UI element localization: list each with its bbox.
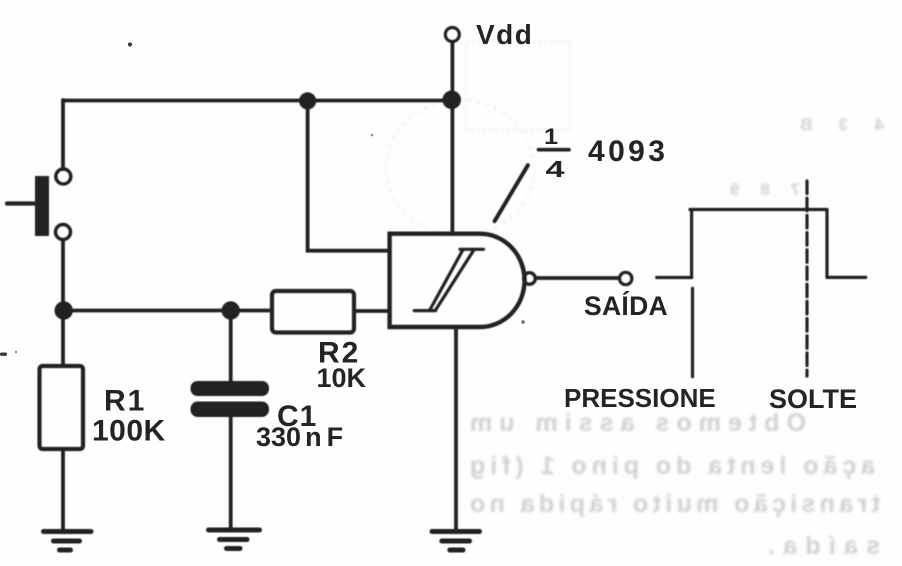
svg-text:ação lenta do pino 1 (fig: ação lenta do pino 1 (fig [470,452,875,480]
svg-text:4: 4 [546,156,565,182]
svg-text:10K: 10K [317,363,367,393]
svg-text:4 3 B: 4 3 B [800,115,884,134]
svg-text:330nF: 330nF [256,422,343,452]
svg-text:1: 1 [544,124,558,149]
svg-text:7 8 9: 7 8 9 [730,180,800,199]
svg-text:Vdd: Vdd [476,19,533,50]
svg-text:100K: 100K [92,415,166,448]
svg-text:Obtemos assim um: Obtemos assim um [470,409,806,437]
svg-text:saída.: saída. [768,532,880,560]
svg-text:4093: 4093 [588,135,668,168]
svg-text:SOLTE: SOLTE [769,384,857,414]
svg-text:transição muito rápida no: transição muito rápida no [470,490,880,518]
svg-text:PRESSIONE: PRESSIONE [564,383,716,413]
svg-text:R1: R1 [104,385,146,418]
svg-text:SAÍDA: SAÍDA [584,291,668,321]
